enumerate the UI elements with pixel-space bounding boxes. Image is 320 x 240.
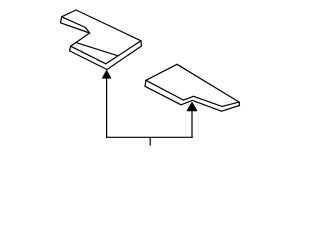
- wire front-left top edge: [146, 80, 184, 100]
- wire right-short bottom edge: [222, 106, 240, 112]
- wire bracket center tick: [149, 137, 151, 145]
- wire right corner vertical: [140, 41, 143, 46]
- wire left corner vertical: [61, 17, 62, 23]
- wire arrow stem: [191, 111, 193, 138]
- wire front-right bottom edge: [192, 100, 221, 111]
- plate 1 (upper left part): [61, 10, 142, 70]
- wire front-right bottom edge: [107, 46, 142, 70]
- wire bracket horizontal: [107, 136, 193, 138]
- wire tab bottom front edge: [61, 23, 90, 33]
- wire notch left arm bottom: [181, 100, 192, 104]
- wire back-left edge: [146, 64, 177, 80]
- wire arrow stem: [106, 78, 108, 137]
- arrowhead: [103, 71, 111, 78]
- wire back-right edge: [177, 64, 239, 102]
- wire front-left bottom edge: [145, 86, 181, 105]
- wire right-short top edge: [222, 102, 239, 106]
- wire front-right top edge: [106, 41, 141, 64]
- wire tab top front edge with notch dive: [62, 17, 90, 33]
- plate 2 (lower right part): [145, 64, 240, 111]
- arrow 1 (points to plate 1 notch): [103, 71, 111, 138]
- wire step riser base: [76, 43, 118, 56]
- parts diagram: two notched step plates with arrows and label bracket: [0, 0, 300, 155]
- wire right corner vertical: [238, 102, 240, 105]
- label bracket: [107, 137, 193, 145]
- wire lower front top edge: [71, 46, 106, 64]
- arrowhead: [187, 103, 196, 111]
- wire lower front bottom edge: [70, 51, 107, 70]
- wire notch diagonal to inner corner: [71, 33, 90, 46]
- wire notch left arm top: [184, 96, 194, 100]
- wire front-right top edge: [194, 96, 223, 106]
- wire left corner vertical: [144, 80, 147, 86]
- wire left inner corner vertical: [70, 46, 71, 51]
- wire back edge: [76, 10, 141, 41]
- wire back-left edge: [62, 10, 76, 17]
- arrow 2 (points to plate 2 notch): [187, 103, 196, 138]
